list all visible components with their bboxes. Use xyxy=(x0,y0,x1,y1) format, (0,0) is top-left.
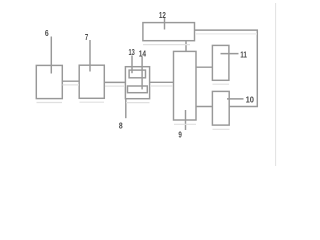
leader 8 xyxy=(125,99,127,119)
leader 7 xyxy=(89,40,91,72)
box 11 xyxy=(212,45,229,80)
svg-text:10: 10 xyxy=(246,96,255,105)
ghost under wire 7-8 xyxy=(105,85,125,87)
wire 7-8 xyxy=(104,81,125,83)
wire 12-9 xyxy=(185,41,187,52)
wire 6-7 xyxy=(62,80,79,82)
box 6 xyxy=(36,65,62,98)
svg-text:7: 7 xyxy=(85,33,88,42)
wire 9-11 xyxy=(196,66,212,68)
wire 12-10 xyxy=(195,30,258,106)
ghost under wire 12-10 xyxy=(196,33,257,35)
box 7 xyxy=(79,65,104,98)
box 12 xyxy=(143,23,195,41)
ghost under box 12 xyxy=(143,44,190,46)
ghost under box 6 xyxy=(37,102,63,104)
ghost under box 11 xyxy=(213,83,230,85)
ghost under box 10 xyxy=(213,128,230,130)
leader 12 xyxy=(164,18,166,30)
svg-text:9: 9 xyxy=(178,131,182,140)
box 10 xyxy=(212,91,229,125)
ghost under box 9 xyxy=(174,123,196,125)
leader 10 xyxy=(227,98,244,100)
svg-text:14: 14 xyxy=(139,49,147,58)
leader 9 xyxy=(185,110,187,130)
box 8 xyxy=(125,67,149,99)
leader 6 xyxy=(50,37,52,74)
svg-text:11: 11 xyxy=(240,51,247,60)
ghost under wire 8-9 xyxy=(150,85,173,87)
leader 13 xyxy=(131,56,133,74)
ghost under box 7 xyxy=(80,101,105,103)
svg-text:13: 13 xyxy=(128,48,135,57)
svg-text:6: 6 xyxy=(45,29,49,38)
box 14 xyxy=(128,86,148,93)
svg-text:8: 8 xyxy=(119,122,123,131)
ghost under box 8 xyxy=(126,102,150,104)
wire 9-10 xyxy=(196,106,212,108)
svg-text:12: 12 xyxy=(159,11,167,20)
box 13 xyxy=(129,70,145,78)
box 9 xyxy=(174,51,197,120)
wire 8-9 xyxy=(150,81,174,83)
ghost under wire 6-7 xyxy=(63,84,80,86)
leader 11 xyxy=(221,53,239,55)
leader 14 xyxy=(141,57,143,90)
border artifact right xyxy=(275,3,277,166)
